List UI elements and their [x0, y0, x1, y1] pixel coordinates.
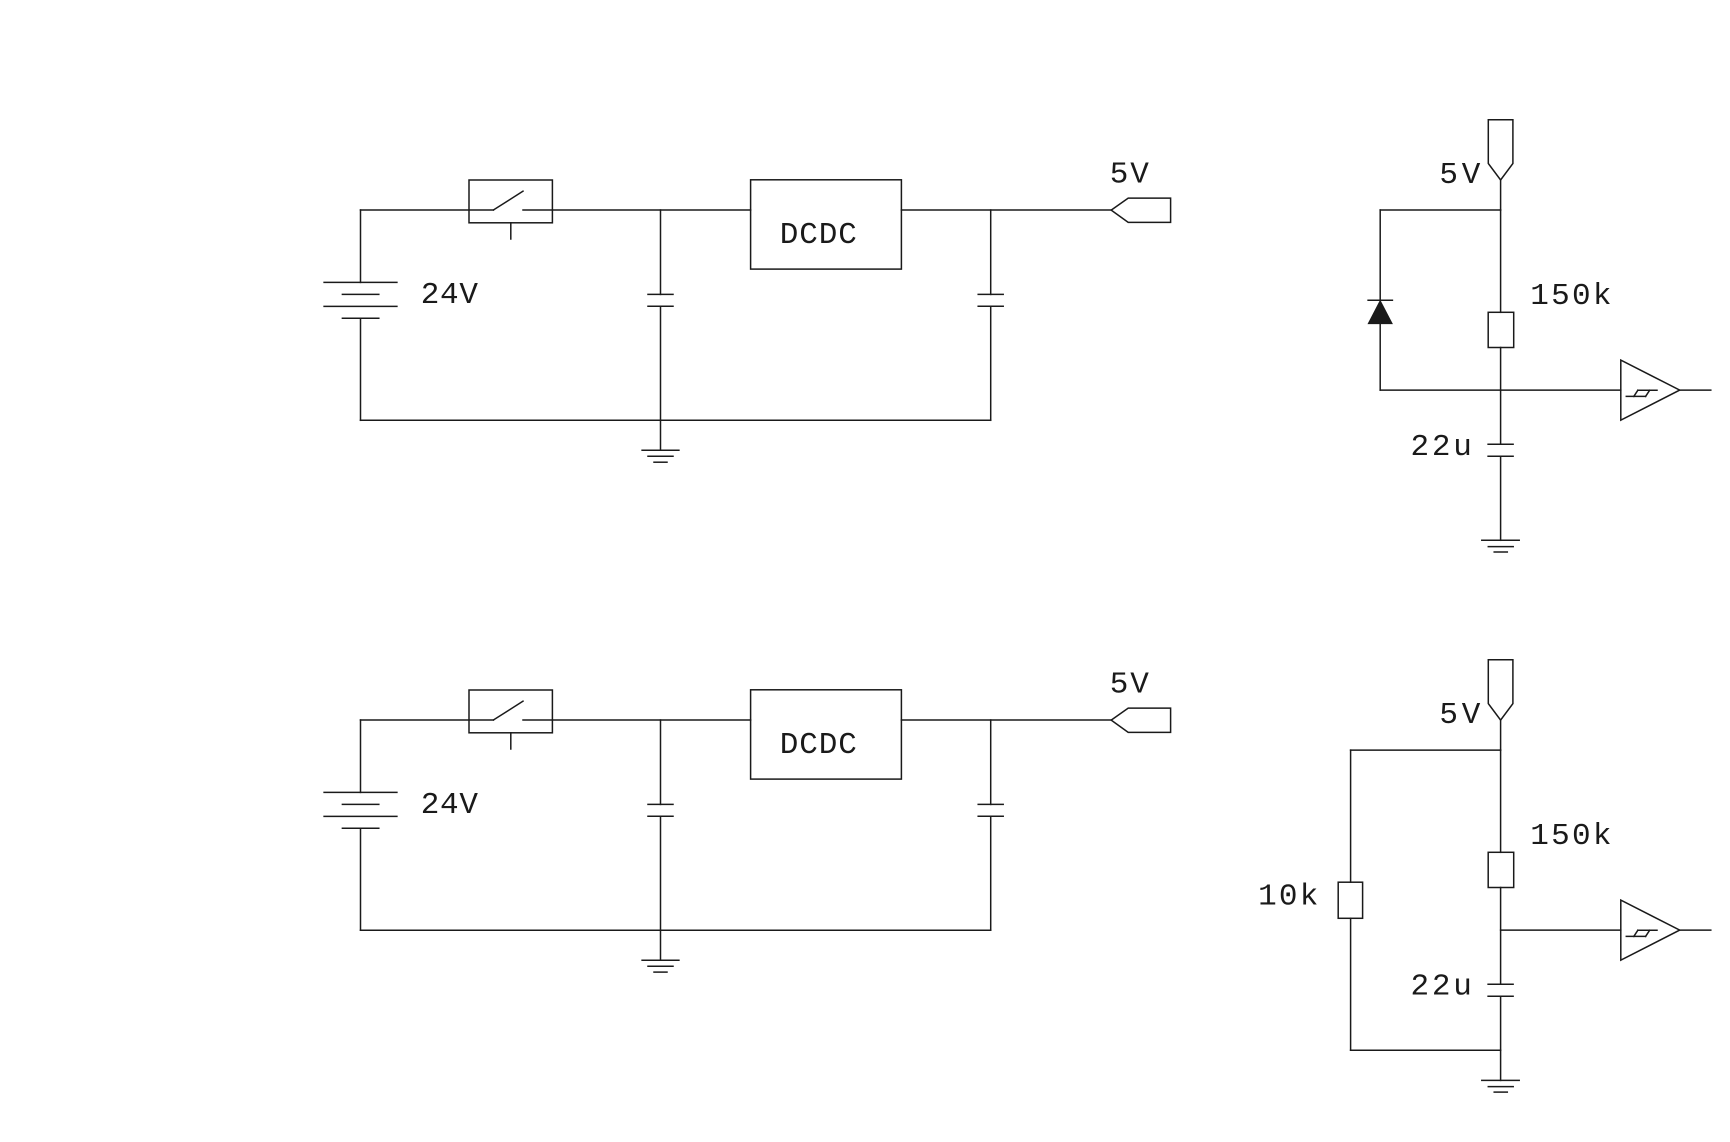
wire R2 bottom lead — [1350, 918, 1352, 1050]
wire C5 bottom lead — [990, 816, 992, 930]
switch SW1 — [469, 180, 552, 239]
wire R2 top lead — [1350, 750, 1352, 882]
diode D1 — [1368, 300, 1392, 323]
capacitor C6 22u — [1488, 984, 1513, 996]
capacitor C1 input — [648, 294, 673, 306]
wire sense node to buffer U4 input — [1501, 929, 1621, 931]
capacitor C5 output — [978, 804, 1003, 816]
svg-text:24V: 24V — [421, 788, 479, 823]
svg-text:22u: 22u — [1411, 970, 1472, 1005]
wire battery negative lead — [360, 318, 362, 420]
wire C2 bottom lead — [990, 306, 992, 420]
wire 5V to resistor R3 — [1500, 750, 1502, 852]
battery BT2 — [324, 792, 397, 828]
svg-text:5V: 5V — [1110, 667, 1150, 702]
converter U3 DCDC — [751, 690, 902, 779]
svg-text:5V: 5V — [1110, 157, 1150, 192]
capacitor C4 input — [648, 804, 673, 816]
svg-text:24V: 24V — [421, 278, 479, 313]
wire ground return bottom — [361, 419, 991, 421]
wire C5 top lead — [990, 720, 992, 804]
capacitor C3 22u — [1488, 444, 1513, 456]
wire C2 top lead — [990, 210, 992, 294]
ground GND4 — [1482, 1080, 1519, 1092]
wire C4 top lead — [660, 720, 662, 804]
converter U1 DCDC — [751, 180, 902, 269]
wire diode cathode lead — [1379, 210, 1381, 300]
connector output 5V bottom — [1111, 708, 1170, 732]
wire 5V rail to diode branch — [1380, 209, 1500, 211]
wire C3 to ground — [1500, 456, 1502, 540]
wire 5V flag lead — [1500, 180, 1502, 210]
wire 5V to resistor R1 — [1500, 210, 1502, 312]
power flag 5V top — [1488, 120, 1513, 180]
resistor R3 150k — [1488, 852, 1514, 887]
ground GND2 — [642, 960, 679, 972]
wire 5V flag bottom lead — [1500, 720, 1502, 750]
schmitt buffer U2 — [1621, 360, 1680, 420]
wire C4 bottom lead to ground — [660, 816, 662, 960]
svg-text:DCDC: DCDC — [780, 218, 857, 253]
wire diode anode lead — [1379, 323, 1381, 390]
schmitt buffer U4 — [1621, 900, 1680, 960]
power flag 5V bottom — [1488, 660, 1513, 720]
wire C1 top lead — [660, 210, 662, 294]
wire R2 branch to ground node — [1351, 1049, 1501, 1051]
connector output 5V — [1111, 198, 1170, 222]
capacitor C2 output — [978, 294, 1003, 306]
ground GND3 — [1482, 540, 1519, 552]
wire battery to switch — [361, 209, 494, 211]
wire 5V rail to resistor branch — [1351, 749, 1501, 751]
wire C1 bottom lead to ground — [660, 306, 662, 450]
wire R3 bottom to capacitor C6 — [1500, 888, 1502, 985]
wire switch to DCDC input, junction at C1 — [523, 209, 751, 211]
wire battery positive lead — [360, 210, 362, 282]
wire DCDC output to 5V connector, junction at C2 — [901, 209, 1111, 211]
svg-text:10k: 10k — [1258, 879, 1318, 914]
wire ground return bottom 2 — [361, 929, 991, 931]
wire R1 bottom to capacitor C3 — [1500, 348, 1502, 445]
wire battery BT2 negative lead — [360, 828, 362, 930]
wire sense node to buffer input — [1380, 389, 1621, 391]
resistor R2 10k — [1338, 882, 1362, 918]
switch SW2 — [469, 690, 552, 749]
ground GND1 — [642, 450, 679, 462]
resistor R1 — [1488, 312, 1514, 347]
svg-text:22u: 22u — [1411, 430, 1472, 465]
wire switch SW2 to DCDC input, junction at C4 — [523, 719, 751, 721]
wire buffer U2 output — [1680, 389, 1711, 391]
wire buffer U4 output — [1680, 929, 1711, 931]
wire C6 to ground — [1500, 996, 1502, 1080]
wire battery to switch SW2 — [361, 719, 494, 721]
wire battery BT2 positive lead — [360, 720, 362, 792]
svg-text:DCDC: DCDC — [780, 728, 857, 763]
battery BT1 — [324, 282, 397, 318]
wire DCDC U3 output to 5V connector, junction at C5 — [901, 719, 1111, 721]
